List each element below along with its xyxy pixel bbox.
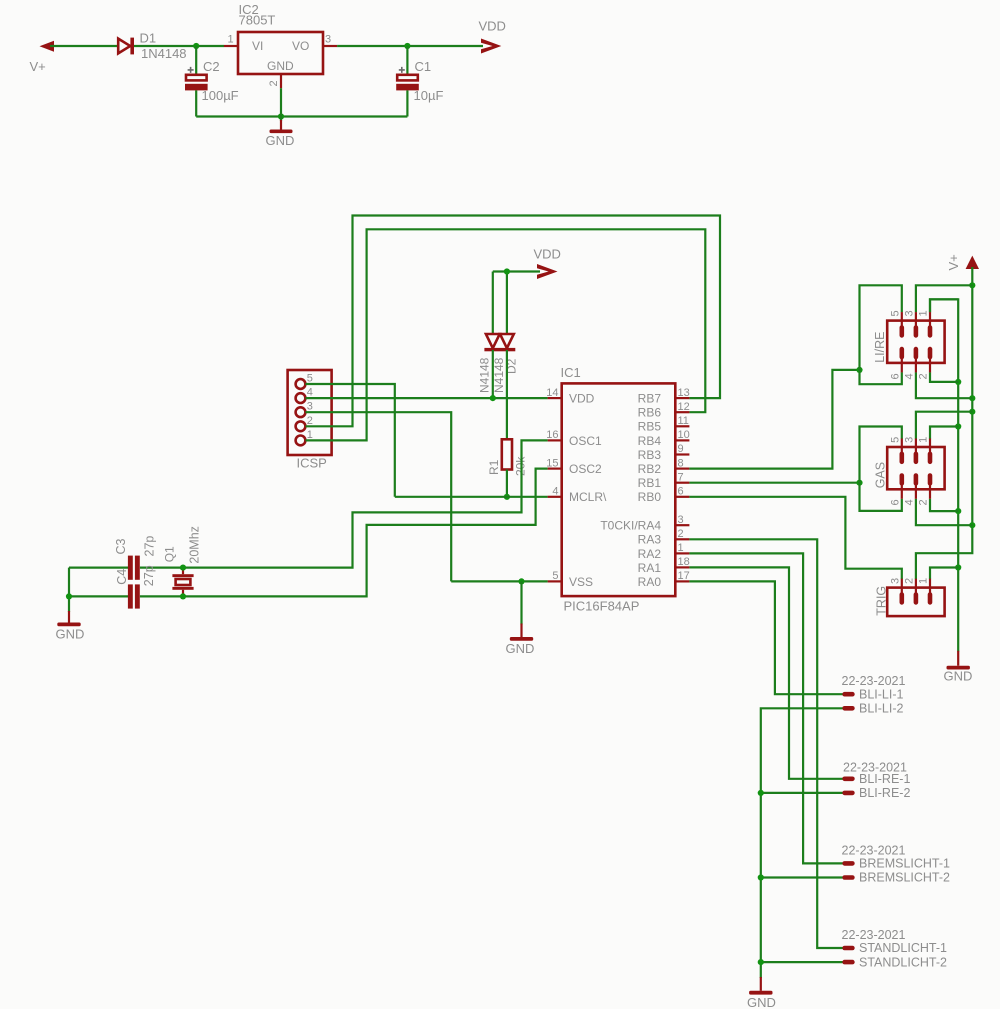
junction node V+/GAS p4 <box>969 522 975 528</box>
junction node V+/LIRE p3 <box>969 282 975 288</box>
terminal BLI-RE-1 <box>842 777 854 782</box>
svg-text:OSC1: OSC1 <box>569 434 602 448</box>
wire LI/RE pin1 to GND rail <box>930 299 958 312</box>
supply arrow VDD (top right) <box>481 39 501 54</box>
svg-text:GND: GND <box>944 669 973 684</box>
pin stub 1 RA2 <box>675 552 689 554</box>
svg-text:VSS: VSS <box>569 575 593 589</box>
wire D2 cathode to VDD net <box>492 350 494 398</box>
svg-text:20Mhz: 20Mhz <box>188 526 202 564</box>
ground symbol (crystal) <box>57 611 80 626</box>
svg-text:BREMSLICHT-2: BREMSLICHT-2 <box>859 871 950 885</box>
svg-text:15: 15 <box>546 457 558 469</box>
svg-text:LI/RE: LI/RE <box>873 332 887 363</box>
wire GAS pin4 to V+ <box>916 499 972 526</box>
ICSP pin 2 circle <box>296 421 306 431</box>
wire C1 lower lead <box>406 90 408 116</box>
svg-text:RB2: RB2 <box>638 462 662 476</box>
wire C2 lower lead <box>195 90 197 116</box>
TRIG pin 3 <box>900 579 905 605</box>
resistor R1 <box>502 439 512 469</box>
wire gnd bus BLI-LI-2 <box>761 708 843 978</box>
LI/RE pin 4 <box>914 347 919 373</box>
wire crystal bottom left segment <box>69 595 128 597</box>
ground symbol (connector rail) <box>947 651 970 670</box>
pin stub IC2 pin 2 (gnd) <box>280 74 282 88</box>
ICSP pin 5 circle <box>296 379 306 389</box>
svg-text:RB4: RB4 <box>638 434 662 448</box>
wire VSS net <box>451 580 547 582</box>
wire TRIG pin1 to GND rail <box>930 568 958 580</box>
svg-text:4: 4 <box>552 486 558 498</box>
GAS pin 6 <box>900 473 905 499</box>
diode D1 <box>118 38 134 55</box>
svg-text:VDD: VDD <box>534 247 561 262</box>
svg-text:BREMSLICHT-1: BREMSLICHT-1 <box>859 857 950 871</box>
svg-text:22-23-2021: 22-23-2021 <box>842 928 906 942</box>
svg-text:12: 12 <box>678 401 690 413</box>
svg-text:3: 3 <box>903 437 915 443</box>
svg-text:GND: GND <box>267 59 294 73</box>
wire left gnd drop <box>68 568 70 612</box>
svg-text:C1: C1 <box>415 59 432 74</box>
svg-text:V+: V+ <box>30 59 46 74</box>
svg-text:R1: R1 <box>487 459 501 475</box>
crystal Q1 <box>172 568 193 597</box>
wire LI/RE pin5 loop <box>860 285 902 384</box>
svg-text:1: 1 <box>678 542 684 554</box>
svg-text:VDD: VDD <box>479 19 506 34</box>
connector LI/RE body <box>887 321 944 363</box>
svg-text:STANDLICHT-1: STANDLICHT-1 <box>859 941 947 955</box>
svg-text:2: 2 <box>307 415 313 427</box>
svg-text:9: 9 <box>678 443 684 455</box>
wire D1 cathode to IC2 pin1 <box>134 45 224 47</box>
ground symbol (power section) <box>270 120 293 133</box>
svg-text:VDD: VDD <box>569 392 595 406</box>
junction node on MCLR net <box>504 494 510 500</box>
wire BREMSLICHT-2 <box>761 876 843 878</box>
supply arrow V+ (right, up) <box>966 256 979 269</box>
wire VSS gnd drop <box>520 581 522 624</box>
svg-text:V+: V+ <box>946 254 961 270</box>
wire C2 upper lead <box>195 46 197 75</box>
terminal BLI-LI-1 <box>842 692 854 697</box>
wire ICSP pin5 to MCLR net (down at x394.8) <box>306 384 395 497</box>
svg-text:RA2: RA2 <box>638 547 662 561</box>
wire MCLR net <box>395 496 548 498</box>
svg-text:VI: VI <box>252 39 263 53</box>
svg-text:5: 5 <box>889 437 901 443</box>
wire RA2 to BREMSLICHT-1 <box>689 553 842 863</box>
junction node GNDrail/TRIG p1 <box>955 564 961 570</box>
svg-text:GND: GND <box>56 627 85 642</box>
svg-text:Q1: Q1 <box>162 546 176 562</box>
wire V+ arrow to D1 anode <box>50 45 118 47</box>
terminal BREMSLICHT-1 <box>842 861 854 866</box>
svg-text:2: 2 <box>918 499 930 505</box>
svg-text:3: 3 <box>678 514 684 526</box>
svg-text:10µF: 10µF <box>414 88 444 103</box>
svg-text:RB3: RB3 <box>638 448 662 462</box>
svg-text:BLI-LI-1: BLI-LI-1 <box>859 687 904 701</box>
svg-text:4: 4 <box>903 499 915 505</box>
wire R1 bottom to MCLR net <box>506 470 508 497</box>
LI/RE pin 3 <box>914 312 919 338</box>
junction node at C1 <box>404 43 410 49</box>
terminal BLI-LI-2 <box>842 706 854 711</box>
svg-text:1: 1 <box>918 437 930 443</box>
wire D2 cathode to R1 top <box>506 350 508 439</box>
wire RB2 to LI/RE pins 5+6 <box>689 370 859 469</box>
pin stub IC2 pin 1 <box>224 45 238 47</box>
pin stub 6 RB0 <box>675 496 689 498</box>
svg-text:2: 2 <box>268 80 280 86</box>
svg-text:BLI-LI-2: BLI-LI-2 <box>859 702 904 716</box>
svg-text:2: 2 <box>918 373 930 379</box>
svg-text:ICSP: ICSP <box>297 456 327 471</box>
svg-text:3: 3 <box>307 401 313 413</box>
svg-text:RB7: RB7 <box>638 392 662 406</box>
supply arrow VDD (middle) <box>537 264 558 279</box>
wire LI/RE pin3 to V+ <box>916 285 972 312</box>
wire LI/RE pin4 to V+ <box>916 372 972 398</box>
ground symbol (output bus) <box>749 977 772 995</box>
svg-text:6: 6 <box>678 486 684 498</box>
svg-text:BLI-RE-1: BLI-RE-1 <box>859 772 910 786</box>
wire ICSP pin1 to inner loop <box>306 229 706 440</box>
wire GAS pin3 to V+ <box>916 412 972 439</box>
svg-text:27p: 27p <box>143 536 157 557</box>
wire BLI-RE-2 <box>761 792 843 794</box>
junction node V+/GAS p3 <box>969 409 975 415</box>
svg-text:TRIG: TRIG <box>875 586 889 616</box>
svg-text:4: 4 <box>903 373 915 379</box>
capacitor C4 <box>128 584 140 608</box>
junction node V+/LIRE p4 <box>969 395 975 401</box>
wire C1 upper lead <box>406 46 408 75</box>
capacitor C2 <box>185 67 208 91</box>
svg-text:6: 6 <box>889 373 901 379</box>
wire RB1 to GAS pins 5+6 <box>689 482 859 484</box>
svg-text:C3: C3 <box>114 538 128 554</box>
pin stub 17 RA0 <box>675 580 689 582</box>
TRIG pin 2 <box>914 579 919 605</box>
GAS pin 5 <box>900 439 905 465</box>
capacitor C3 <box>128 556 140 580</box>
GAS pin 4 <box>914 473 919 499</box>
pin stub 9 RB3 <box>675 453 689 455</box>
wire RA1 to BLI-RE-1 <box>689 567 842 778</box>
svg-text:C4: C4 <box>115 569 129 585</box>
junction node VDD stem <box>504 268 510 274</box>
svg-text:D1: D1 <box>140 31 157 46</box>
svg-text:RB5: RB5 <box>638 420 662 434</box>
svg-text:10: 10 <box>678 429 690 441</box>
svg-text:5: 5 <box>889 310 901 316</box>
wire IC2 VO to VDD arrow <box>337 45 483 47</box>
pin stub 16 OSC1 <box>548 439 562 441</box>
svg-text:3: 3 <box>325 34 331 46</box>
junction node GAS signal <box>856 480 862 486</box>
ICSP pin 1 circle <box>296 436 306 446</box>
ICSP pin 4 circle <box>296 393 306 403</box>
svg-text:1: 1 <box>307 429 313 441</box>
svg-text:RB0: RB0 <box>638 490 662 504</box>
svg-text:N4148: N4148 <box>478 357 492 393</box>
ground symbol (VSS) <box>510 624 533 641</box>
wire ICSP pin2 to outer loop <box>306 216 721 427</box>
junction node gnd bus <box>278 113 284 119</box>
junction node GNDrail/LIRE p2 <box>955 379 961 385</box>
GAS pin 3 <box>914 439 919 465</box>
GAS pin 2 <box>928 473 933 499</box>
svg-text:BLI-RE-2: BLI-RE-2 <box>859 786 910 800</box>
terminal STANDLICHT-1 <box>842 946 854 951</box>
svg-text:1: 1 <box>918 310 930 316</box>
junction node crystal gnd <box>66 593 72 599</box>
wire RB0 to TRIG pin3 <box>689 497 901 579</box>
svg-text:5: 5 <box>552 570 558 582</box>
svg-text:17: 17 <box>678 570 690 582</box>
wire OSC2 routing <box>140 469 548 597</box>
svg-text:18: 18 <box>678 556 690 568</box>
svg-text:2: 2 <box>903 578 915 584</box>
svg-text:STANDLICHT-2: STANDLICHT-2 <box>859 955 947 969</box>
wire GAS pin5 loop <box>860 427 902 511</box>
wire OSC1 routing <box>140 440 548 567</box>
wire ICSP pin3 to GND net (down at x451.2) <box>306 412 452 581</box>
wire RA0 to BLI-LI-1 <box>689 581 842 694</box>
wire LI/RE pin2 to GND rail <box>930 372 958 382</box>
svg-text:16: 16 <box>546 429 558 441</box>
capacitor C1 <box>396 67 419 91</box>
svg-text:GAS: GAS <box>874 462 888 488</box>
svg-text:3: 3 <box>889 578 901 584</box>
connector GAS body <box>887 447 944 489</box>
svg-text:GND: GND <box>747 995 776 1009</box>
LI/RE pin 6 <box>900 347 905 373</box>
pin stub 3 T0CKI/RA4 <box>675 524 689 526</box>
mcu IC1 body <box>562 383 676 596</box>
junction node on VDD net <box>490 395 496 401</box>
svg-text:7: 7 <box>678 471 684 483</box>
svg-text:100µF: 100µF <box>202 88 239 103</box>
wire RA3 to STANDLICHT-1 <box>689 539 842 948</box>
pin stub 13 RB7 <box>675 397 689 399</box>
pin stub 5 VSS <box>548 580 562 582</box>
svg-text:4: 4 <box>307 387 313 399</box>
wire IC2 gnd pin down <box>280 88 282 121</box>
svg-text:IC1: IC1 <box>561 365 581 380</box>
svg-text:MCLR\: MCLR\ <box>569 490 607 504</box>
pin stub IC2 pin 3 <box>323 45 337 47</box>
svg-text:1N4148: 1N4148 <box>141 46 187 61</box>
wire STANDLICHT-2 <box>761 961 843 963</box>
svg-text:RA0: RA0 <box>638 575 662 589</box>
svg-text:14: 14 <box>546 387 558 399</box>
connector TRIG body <box>887 588 944 617</box>
svg-text:RA3: RA3 <box>638 533 662 547</box>
wire VDD arrow stem <box>493 270 540 272</box>
pin stub 10 RB4 <box>675 439 689 441</box>
LI/RE pin 5 <box>900 312 905 338</box>
svg-text:11: 11 <box>678 415 689 427</box>
svg-text:GND: GND <box>506 641 535 656</box>
wire GND rail (connector side) <box>930 299 958 651</box>
junction node STANDLICHT-2 <box>758 959 764 965</box>
pin stub 4 MCLR <box>548 496 562 498</box>
GAS pin 1 <box>928 439 933 465</box>
terminal BREMSLICHT-2 <box>842 875 854 880</box>
junction node LI/RE signal <box>856 367 862 373</box>
terminal STANDLICHT-2 <box>842 960 854 965</box>
ICSP pin 3 circle <box>296 407 306 417</box>
pin stub 15 OSC2 <box>548 468 562 470</box>
svg-text:1: 1 <box>228 34 234 46</box>
pin stub 18 RA1 <box>675 566 689 568</box>
svg-text:T0CKI/RA4: T0CKI/RA4 <box>600 519 661 533</box>
junction node crystal bottom <box>180 593 186 599</box>
svg-text:1: 1 <box>918 578 930 584</box>
junction node VSS gnd <box>518 578 524 584</box>
svg-text:GND: GND <box>266 133 295 148</box>
svg-text:C2: C2 <box>203 59 220 74</box>
svg-text:8: 8 <box>678 457 684 469</box>
svg-text:2: 2 <box>678 528 684 540</box>
wire ground bus (C2 to C1) <box>196 115 407 117</box>
svg-text:VO: VO <box>292 39 309 53</box>
terminal BLI-RE-2 <box>842 791 854 796</box>
pin stub 2 RA3 <box>675 538 689 540</box>
svg-text:27p: 27p <box>142 565 156 586</box>
TRIG pin 1 <box>928 579 933 605</box>
svg-text:13: 13 <box>678 387 690 399</box>
wire ICSP pin4 to VDD net (to IC pin14) <box>306 397 548 399</box>
junction node at C2 <box>193 43 199 49</box>
junction node BLI-RE-2 <box>758 790 764 796</box>
wire GAS pin2 to GND rail <box>930 499 958 511</box>
wire V+ rail <box>916 267 972 579</box>
pin stub 7 RB1 <box>675 482 689 484</box>
dual diode D2 <box>484 334 515 351</box>
wire D2 left anode up <box>492 272 494 335</box>
svg-text:3: 3 <box>903 310 915 316</box>
supply arrow V+ (left) <box>40 41 55 52</box>
wire D2 right anode up <box>506 272 508 335</box>
voltage regulator IC2 7805T body <box>238 32 323 74</box>
svg-text:OSC2: OSC2 <box>569 462 602 476</box>
svg-text:22-23-2021: 22-23-2021 <box>842 843 906 857</box>
svg-text:RA1: RA1 <box>638 561 662 575</box>
wire crystal top left segment <box>69 566 128 568</box>
svg-text:7805T: 7805T <box>239 13 276 28</box>
junction node GNDrail/GAS p2 <box>955 508 961 514</box>
wire GAS pin1 to GND rail <box>930 427 958 439</box>
svg-text:PIC16F84AP: PIC16F84AP <box>564 599 640 614</box>
LI/RE pin 2 <box>928 347 933 373</box>
junction node BREMSLICHT-2 <box>758 874 764 880</box>
connector ICSP body <box>288 370 332 455</box>
pin stub 11 RB5 <box>675 425 689 427</box>
junction node GNDrail/GAS p1 <box>955 423 961 429</box>
svg-text:RB6: RB6 <box>638 406 662 420</box>
pin stub 8 RB2 <box>675 468 689 470</box>
pin stub 14 VDD <box>548 397 562 399</box>
LI/RE pin 1 <box>928 312 933 338</box>
svg-text:5: 5 <box>307 373 313 385</box>
pin stub 12 RB6 <box>675 411 689 413</box>
junction node crystal top <box>180 565 186 571</box>
svg-text:RB1: RB1 <box>638 476 662 490</box>
svg-text:22-23-2021: 22-23-2021 <box>842 674 906 688</box>
svg-text:6: 6 <box>889 499 901 505</box>
